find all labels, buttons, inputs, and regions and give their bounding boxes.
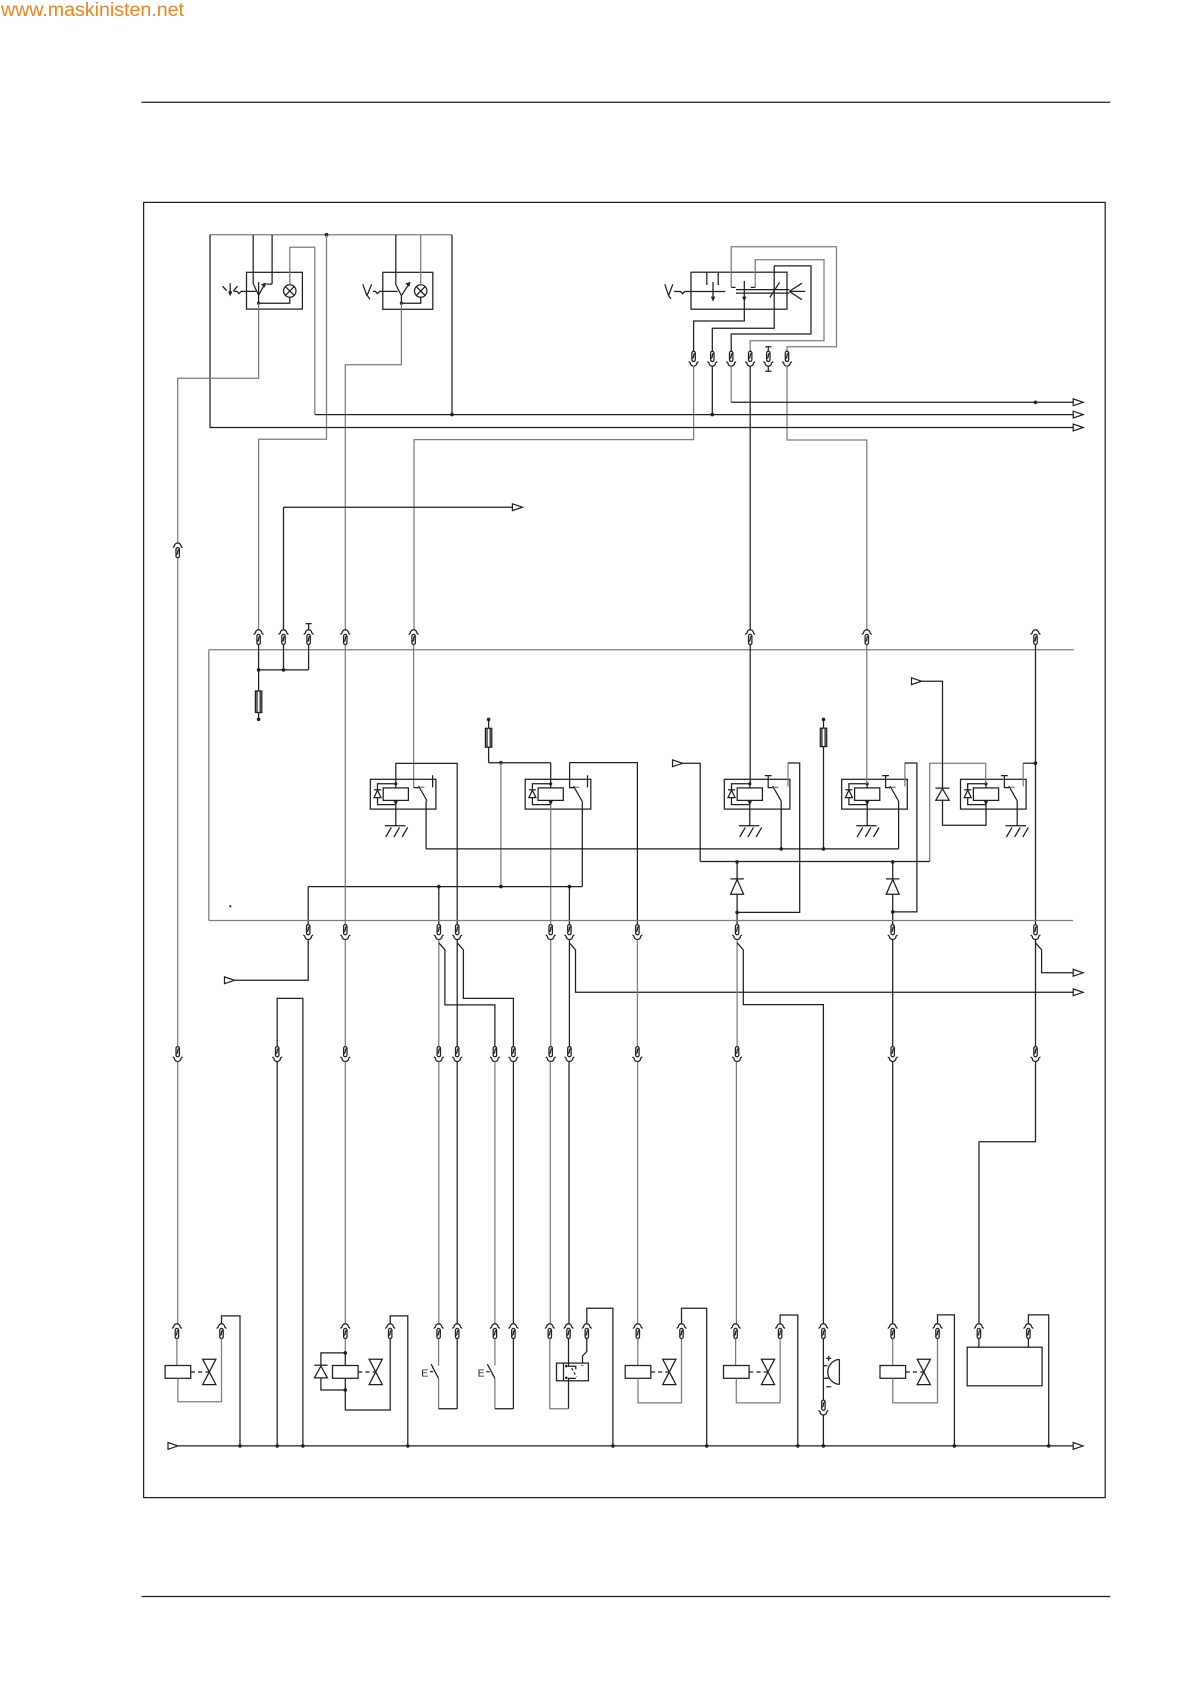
relay K2 coil top junction	[549, 782, 552, 785]
wire lamp S1 bottom to lamp	[259, 297, 290, 303]
svg-text:www.maskinisten.net: www.maskinisten.net	[0, 0, 185, 21]
connector X12f pin	[453, 1324, 462, 1339]
wire fuse group join	[259, 645, 309, 670]
wire X8h straight to X10l	[1035, 940, 1037, 1047]
relay K2 coil	[538, 788, 563, 801]
horn H1 plus label	[826, 1356, 831, 1361]
line A relay2 return	[308, 886, 582, 888]
relay K3 switch blade	[773, 786, 781, 801]
junction bottom bus	[275, 1444, 279, 1448]
lamp switch S1 switch pole	[258, 282, 260, 303]
relay K3 housing box	[724, 779, 790, 809]
bus bottom ground line	[177, 1445, 1073, 1447]
junction diode V9 bottom	[344, 1388, 348, 1392]
connector X12d pin	[386, 1324, 395, 1339]
wire X10e down to X12g	[494, 1062, 496, 1324]
interval unit M1 box	[557, 1363, 589, 1381]
lamp switch S2 blade	[396, 283, 410, 296]
wire X8d jog branch to right arrow	[569, 943, 1073, 993]
relay K3 suppression diode loop wire	[732, 784, 750, 805]
arrow feed V6	[912, 678, 922, 685]
relay K2 coil bottom arrow	[549, 801, 553, 806]
lamp switch S1 pole junction	[257, 302, 260, 305]
relay K5 switch blade	[1009, 786, 1017, 801]
junction top lamp bus	[325, 233, 329, 237]
wire X7d down to connector X5d	[749, 366, 751, 630]
wire to fuse F1	[258, 670, 260, 691]
lamp switch S1 actuator symbol	[223, 283, 238, 294]
bus top feed line with arrow	[731, 401, 1073, 403]
wire fuse F3 down to line C	[823, 747, 825, 849]
connector X10i pin	[633, 1047, 642, 1062]
relay K4 suppression diode loop wire	[849, 784, 867, 805]
relay K1 suppression diode loop wire	[378, 784, 396, 805]
wire X8b0 straight to X10b2	[344, 940, 346, 1047]
valve body Y4	[761, 1359, 774, 1384]
switch S5 blade	[487, 1364, 495, 1378]
connector X10h pin	[565, 1047, 574, 1062]
relay K1 common terminal foot	[414, 787, 418, 789]
column switch S3 actuator symbol	[665, 284, 673, 299]
wire line A to X8d	[568, 887, 570, 925]
wire X10b down to bottom bus	[276, 1062, 278, 1446]
wire S3 loop C	[731, 266, 811, 351]
ground relay K4	[856, 826, 879, 837]
lamp switch S1 switch blade V	[253, 284, 265, 296]
connector X10b2 pin	[341, 1047, 350, 1062]
switch S5 feed	[494, 1339, 496, 1366]
wire X12l to valve Y3 coil	[637, 1339, 639, 1366]
relay K2 common terminal foot	[569, 787, 573, 789]
junction top feed bus to K5 column	[1034, 401, 1038, 405]
wire to valve Y2 coil	[344, 1353, 346, 1366]
wire X8f jog branch to horn feed	[737, 943, 823, 1324]
terminal dot above fuse F2	[487, 718, 491, 722]
connector X12b pin	[217, 1324, 226, 1339]
connector X7b pin	[708, 351, 717, 366]
connector X5f pin	[1031, 630, 1040, 645]
dashed actuation link Y1	[191, 1371, 209, 1373]
lamp switch S1 right throw contact	[266, 283, 272, 285]
connector X10j pin	[733, 1047, 742, 1062]
connector X12i pin	[545, 1324, 554, 1339]
junction fuse join a	[257, 668, 261, 672]
valve body Y2	[369, 1359, 382, 1384]
column switch S3 pole 1	[712, 282, 714, 300]
wire relay K3 coil feed from X5d	[749, 645, 751, 784]
connector X12p pin	[819, 1324, 828, 1339]
switch S5 return	[494, 1378, 496, 1408]
wire X7a to relay K1 common	[414, 366, 694, 630]
diagram border frame	[144, 202, 1106, 1497]
wire relay K5 blade to ground	[1016, 801, 1018, 826]
junction bottom bus	[611, 1444, 615, 1448]
line C relay outputs	[426, 848, 898, 850]
connector X5a pin	[304, 630, 313, 645]
wire X12t into control unit A1	[1027, 1339, 1029, 1348]
lamp switch S1 box	[247, 272, 303, 309]
wire valve Y2 return	[345, 1339, 390, 1410]
connector X5c pin	[409, 630, 418, 645]
junction line A b	[499, 885, 503, 889]
wire line A to X8b2	[438, 887, 440, 925]
relay K3 coil bottom arrow	[748, 801, 752, 806]
junction line D at diode V8	[891, 860, 895, 864]
connector X8g pin	[888, 925, 897, 940]
connector X7e stub pin	[765, 347, 771, 351]
junction bottom bus	[822, 1444, 826, 1448]
relay K1 NC stub	[432, 775, 434, 787]
relay K5 suppression diode	[964, 789, 971, 791]
wire diode V9 branch	[321, 1353, 345, 1390]
wire X12c to junction Y2	[344, 1339, 346, 1353]
connector X1 left column	[173, 543, 182, 558]
relay K3 suppression diode	[728, 789, 735, 791]
wire X10i down to X12l	[637, 1062, 639, 1324]
ground relay K1	[385, 826, 408, 837]
wire relay K5 NC feed	[1022, 763, 1024, 786]
connector X5d pin	[746, 630, 755, 645]
connector X12r pin	[933, 1324, 942, 1339]
wire S1 right throw feed	[271, 235, 273, 284]
wire relay K3 coil to ground	[749, 805, 751, 826]
relay K4 common stub	[882, 776, 890, 788]
column switch S3 double throw lines	[736, 290, 789, 294]
wire valve Y1 return	[178, 1339, 222, 1402]
interval unit M1 contact dots	[565, 1365, 568, 1368]
lamp switch S2 indicator lamp	[415, 285, 427, 297]
wire relay K1 NO output to line C	[425, 801, 427, 849]
wire X12d top to bottom bus	[390, 1316, 408, 1446]
relay K4 housing box	[842, 779, 908, 809]
wire X10j down to X12n	[735, 1062, 737, 1324]
wire relay K4 coil to ground	[866, 805, 868, 826]
wire X8g straight to X10k	[892, 940, 894, 1047]
wire X10b2 down to X12c	[344, 1062, 346, 1324]
wire X7b to middle bus	[711, 366, 713, 415]
bus middle distribution line with arrow	[315, 414, 1073, 416]
connector X8b2 pin	[434, 925, 443, 940]
diode V8	[886, 878, 899, 880]
wire pilot branch to right arrow	[284, 507, 513, 630]
wire horn H1 to connector X13	[822, 1378, 824, 1400]
connector X8e pin	[633, 925, 642, 940]
switch S5 label link	[486, 1371, 489, 1373]
connector X12h pin	[509, 1324, 518, 1339]
wire X12r top to bottom bus	[938, 1315, 955, 1446]
relay K5 coil top junction	[984, 782, 987, 785]
wire relay K4 NO output to line C end	[898, 801, 900, 849]
wire X13 to bottom bus	[822, 1415, 824, 1446]
wire X8a to left arrow	[234, 940, 309, 981]
bottom rule	[142, 1596, 1111, 1598]
wire relay K1 coil riser to X8b	[396, 763, 457, 924]
connector X12g pin	[490, 1324, 499, 1339]
relay K5 coil bottom arrow	[984, 801, 988, 806]
junction X7b middle bus	[711, 413, 715, 417]
relay K2 housing box	[525, 779, 591, 809]
valve body Y3	[663, 1359, 676, 1384]
wire X8b2 jog branch to X10e	[439, 943, 495, 1047]
relay K2 switch blade	[574, 786, 582, 801]
ground relay K3	[739, 826, 762, 837]
wire X8d straight to X10h	[568, 940, 570, 1047]
wire X8e straight to X10i	[636, 940, 638, 1047]
connector X10f pin	[509, 1047, 518, 1062]
wire right drop to middle bus junction	[451, 235, 453, 415]
connector X12q pin	[888, 1324, 897, 1339]
switch S4 label link	[430, 1371, 433, 1373]
wire relay K2 coil bottom to X8c	[550, 805, 552, 925]
wire S2 lamp top feed	[420, 235, 422, 285]
wire X12k top to bottom bus	[587, 1308, 613, 1446]
wire valve Y4 return	[736, 1339, 780, 1403]
wire X10c down to X12e	[438, 1062, 440, 1324]
connector X7a pin	[689, 351, 698, 366]
horn H1 terminals	[823, 1366, 829, 1379]
column switch S3 slash blade	[770, 282, 780, 297]
relay K5 common stub	[1001, 776, 1009, 788]
relay K1 coil bottom arrow	[394, 801, 398, 806]
wire X8c straight to X10g	[550, 940, 552, 1047]
wire diode V7 branch	[736, 862, 738, 925]
fuse F2	[488, 721, 490, 728]
connector X12j pin	[564, 1324, 573, 1339]
wire relay K2 NO output to line A	[581, 801, 583, 887]
wire X10d down to X12f	[456, 1062, 458, 1324]
wire S1 blade feed	[252, 235, 254, 284]
junction line D at diode V7	[735, 860, 739, 864]
connector X12a pin	[172, 1324, 181, 1339]
wire relay K1 common feed	[414, 645, 419, 788]
wire X10h down to X12j	[568, 1062, 570, 1324]
junction bottom bus	[406, 1444, 410, 1448]
connector X13 pin	[819, 1400, 828, 1415]
wire X7c to top feed bus	[730, 366, 732, 402]
interval unit M1 output path	[569, 1378, 576, 1408]
wire X7f over to relay K4 feed	[787, 366, 867, 630]
dashed actuation link Y5	[906, 1371, 924, 1373]
lamp switch S2 box	[383, 272, 433, 309]
lamp switch S1 indicator lamp	[284, 285, 296, 297]
fuse F3	[823, 721, 825, 728]
solenoid coil Y3	[625, 1366, 651, 1379]
horn H1 body	[828, 1359, 840, 1384]
wire lamp S2 pole down to connector X5b	[345, 303, 401, 630]
junction diode V9 top	[344, 1351, 348, 1355]
lamp switch S2 actuator symbol	[363, 284, 372, 299]
connector X10l pin	[1031, 1047, 1040, 1062]
wire S1 lamp top to middle distribution bus	[290, 247, 315, 414]
connector X12m pin	[677, 1324, 686, 1339]
tiny period mark	[229, 905, 231, 907]
arrow pilot branch	[512, 504, 522, 511]
wire X12o top to bottom bus	[780, 1315, 798, 1446]
relay K5 coil	[973, 788, 998, 801]
bus bottom distribution line with arrow	[210, 427, 1074, 429]
relay K5 suppression diode loop wire	[968, 784, 986, 805]
connector X8f pin	[733, 925, 742, 940]
connector X8c pin	[546, 925, 555, 940]
wire relay K5 coil feed from line D riser	[930, 763, 986, 861]
wire valve Y5 return	[893, 1339, 938, 1403]
connector X3 pin	[254, 630, 263, 645]
connector X12c pin	[341, 1324, 350, 1339]
wire M1 left loop	[550, 1339, 569, 1409]
arrow turn signal feed	[1073, 989, 1083, 996]
top rule	[142, 101, 1111, 103]
relay K2 suppression diode loop wire	[532, 784, 550, 805]
connector X12o pin	[776, 1324, 785, 1339]
arrow line D feed	[673, 760, 683, 767]
interval unit M1 tick	[581, 1365, 584, 1367]
connector X12l pin	[633, 1324, 642, 1339]
wire relay K4 NC feed hook	[904, 763, 906, 786]
horn H1 minus label	[826, 1386, 831, 1388]
junction fuse join b	[282, 668, 286, 672]
relay K1 fixed contact tick	[420, 786, 424, 788]
connector X12t pin	[1024, 1324, 1033, 1339]
junction line C at K3	[779, 847, 783, 851]
wire X10g down to X12i	[549, 1062, 551, 1324]
relay K3 coil	[737, 788, 762, 801]
connector X7d pin	[746, 351, 755, 366]
relay K1 housing box	[370, 779, 436, 809]
control unit A1 box	[967, 1347, 1042, 1386]
relay K3 coil top junction	[748, 782, 751, 785]
connector X12s pin	[974, 1324, 983, 1339]
solenoid coil Y2	[333, 1366, 359, 1379]
junction V8 to K4 hook	[891, 910, 895, 914]
wire X12q to valve Y5 coil	[892, 1339, 894, 1366]
wire X10f down to X12h	[512, 1062, 514, 1324]
wire X10b bridge loop	[277, 998, 303, 1446]
connector X10b pin	[273, 1047, 282, 1062]
relay K5 fixed contact tick	[1010, 786, 1014, 788]
wire X12s into control unit A1	[978, 1339, 980, 1348]
wire S1 pole down the left column	[178, 303, 259, 543]
svg-text:E: E	[421, 1367, 428, 1379]
wire left column to X10a	[177, 558, 179, 1046]
connector X4 pin	[279, 630, 288, 645]
connector X8a pin	[304, 925, 313, 940]
solenoid coil Y1	[165, 1366, 191, 1379]
solenoid coil Y5	[880, 1366, 906, 1379]
wire lamp S2 bottom to lamp	[401, 297, 420, 303]
svg-text:E: E	[478, 1367, 485, 1379]
bus B lower supply line	[209, 920, 1073, 922]
terminal dot under fuse F1	[258, 713, 260, 718]
terminal dot above fuse F3	[822, 718, 826, 722]
wire relay K2 common hook to X8e	[570, 763, 638, 925]
diode V9	[314, 1364, 327, 1366]
wire X10l jog down to X12s	[979, 1062, 1036, 1324]
relay K4 coil	[855, 788, 880, 801]
wire diode V8 branch	[892, 862, 894, 925]
arrow bottom bus right	[1073, 1443, 1083, 1450]
arrow bottom bus left	[168, 1443, 178, 1450]
junction line A a	[437, 885, 441, 889]
column switch S3 top stubs	[707, 272, 718, 285]
interval unit M1 inner divider	[563, 1363, 565, 1381]
wire top lamp bus	[210, 234, 452, 236]
wire relay K4 coil feed from X5e	[866, 645, 868, 784]
diode V7	[730, 878, 743, 880]
relay K1 coil	[383, 788, 408, 801]
connector X10a pin	[173, 1047, 182, 1062]
wire relay K3 NO output to line C	[780, 801, 782, 849]
ground relay K5	[1006, 826, 1029, 837]
column switch S3 contact a	[731, 286, 735, 288]
wire X12m top to bottom bus	[682, 1308, 707, 1446]
lamp switch S1 actuator link	[234, 291, 256, 293]
wire relay K3 NC feed hook	[787, 763, 789, 786]
junction line A c	[568, 885, 572, 889]
dashed actuation link Y2	[358, 1371, 375, 1373]
relay K1 suppression diode	[374, 789, 381, 791]
junction line C at F3	[822, 847, 826, 851]
wire S2 blade feed	[395, 235, 397, 285]
wire X8h jog branch to right arrow	[1036, 943, 1074, 973]
lamp switch S2 actuator link	[373, 291, 398, 293]
dashed actuation link Y4	[749, 1371, 767, 1373]
connector X12n pin	[731, 1324, 740, 1339]
wire valve Y3 return	[638, 1339, 682, 1403]
connector X10d pin	[453, 1047, 462, 1062]
column switch S3 pole 2	[743, 281, 745, 300]
junction K5 NC feed on K5 column	[1034, 761, 1038, 765]
column switch S3 box	[691, 272, 787, 309]
relay K1 switch blade	[419, 786, 427, 801]
relay K4 suppression diode	[845, 789, 852, 791]
relay K4 coil top junction	[866, 782, 869, 785]
bus main supply line	[209, 649, 1074, 651]
fuse F1	[255, 691, 261, 713]
line D accessory feed	[700, 861, 930, 863]
relay K3 fixed contact tick	[774, 786, 778, 788]
switch S4 feed	[438, 1339, 440, 1366]
relay K2 fixed contact tick	[575, 786, 579, 788]
connector X7c pin	[727, 351, 736, 366]
wire arrow feed to diode V6	[921, 681, 943, 788]
junction bottom bus	[301, 1444, 305, 1448]
dashed actuation link Y3	[651, 1371, 669, 1373]
junction bottom bus	[796, 1444, 800, 1448]
valve body Y1	[203, 1359, 216, 1384]
connector X5b pin	[341, 630, 350, 645]
wire fuse F2 to relay K2 coil	[489, 747, 551, 784]
wire X12t top to bottom bus	[1028, 1315, 1048, 1446]
wire X12k into M1	[583, 1339, 587, 1364]
junction K2 coil feed	[499, 761, 503, 765]
relay K2 NC stub	[587, 775, 589, 787]
switch S4 blade	[431, 1364, 439, 1378]
wire X8f straight to X10j	[736, 940, 738, 1047]
wire S3 pole2 drop to X7a	[694, 300, 745, 351]
interval unit M1 input path	[569, 1339, 576, 1370]
wire X8b straight to X10d	[456, 940, 458, 1047]
junction middle bus	[450, 413, 454, 417]
junction bottom bus	[705, 1444, 709, 1448]
solenoid coil Y4	[724, 1366, 750, 1379]
wire S3 loop A	[731, 247, 836, 351]
wire bus left drop	[208, 650, 210, 921]
wire junction down to line A	[500, 763, 502, 887]
wire X8b2 straight to X10c	[438, 940, 440, 1047]
junction bottom bus	[953, 1444, 957, 1448]
relay K3 common stub	[765, 776, 773, 788]
connector X7f pin	[783, 351, 792, 366]
